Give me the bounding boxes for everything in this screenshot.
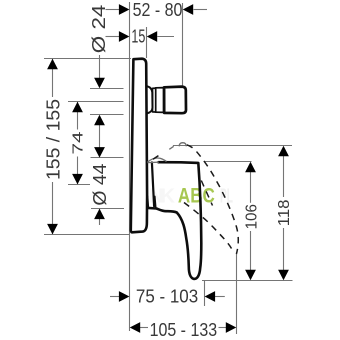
svg-text:ABC: ABC bbox=[178, 184, 215, 207]
svg-text:15: 15 bbox=[131, 26, 145, 46]
svg-text:Ø 24: Ø 24 bbox=[89, 5, 109, 54]
svg-text:74: 74 bbox=[70, 132, 87, 155]
svg-text:52 - 80: 52 - 80 bbox=[133, 0, 183, 20]
svg-text:Ø 44: Ø 44 bbox=[90, 164, 110, 206]
svg-text:106: 106 bbox=[244, 204, 261, 229]
svg-text:PL: PL bbox=[220, 186, 233, 208]
svg-text:75 - 103: 75 - 103 bbox=[136, 287, 198, 307]
svg-text:155 / 155: 155 / 155 bbox=[44, 99, 64, 180]
svg-text:118: 118 bbox=[276, 199, 293, 226]
svg-text:105 - 133: 105 - 133 bbox=[150, 320, 218, 340]
